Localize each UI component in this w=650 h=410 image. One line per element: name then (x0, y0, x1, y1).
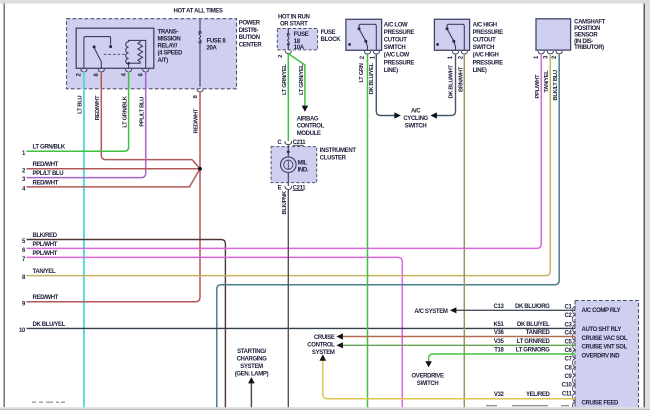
instrument cluster box (271, 147, 317, 183)
page bottom gray strip (0, 407, 650, 410)
svg-text:STARTING/: STARTING/ (237, 349, 266, 355)
svg-text:SWITCH: SWITCH (473, 45, 495, 51)
MIL indicator lamp U2 (281, 145, 297, 187)
wire 10 DK BLU/YEL horizontal to connector C3 (27, 327, 576, 329)
svg-text:TRIBUTOR): TRIBUTOR) (574, 45, 604, 51)
svg-text:MISSION: MISSION (158, 37, 181, 43)
svg-text:SENSOR: SENSOR (574, 32, 598, 38)
svg-text:TRANS-: TRANS- (158, 29, 179, 35)
svg-text:LINE): LINE) (384, 68, 398, 74)
svg-text:A/C SYSTEM: A/C SYSTEM (414, 309, 448, 315)
svg-text:LT BLU: LT BLU (78, 96, 84, 114)
svg-text:RED/WHT: RED/WHT (33, 180, 59, 186)
svg-text:POSITION: POSITION (574, 26, 600, 32)
svg-text:A/T): A/T) (158, 58, 169, 64)
svg-text:V35: V35 (494, 339, 505, 345)
svg-text:A/C HIGH: A/C HIGH (473, 22, 497, 28)
wire T18 LT GRN/ORG row C6 to overdrive switch (429, 354, 575, 362)
svg-text:PPL/LT BLU: PPL/LT BLU (33, 171, 64, 177)
wire 2 RED/WHT horizontal (27, 168, 201, 170)
svg-text:C3: C3 (565, 323, 573, 329)
svg-text:HOT AT ALL TIMES: HOT AT ALL TIMES (173, 9, 222, 15)
svg-text:K51: K51 (494, 322, 505, 328)
svg-text:CRUISE: CRUISE (314, 335, 335, 341)
svg-text:C4: C4 (565, 331, 573, 337)
svg-text:C13: C13 (494, 304, 505, 310)
svg-text:CRUISE VNT SOL: CRUISE VNT SOL (582, 345, 628, 351)
svg-text:TAN/YEL: TAN/YEL (544, 70, 550, 93)
svg-text:DK BLU/YEL: DK BLU/YEL (369, 62, 375, 94)
wire BLK/PNK (cluster pin E down) (287, 189, 289, 407)
fuse F18 terminal bump (285, 51, 291, 54)
svg-text:SYSTEM: SYSTEM (240, 364, 263, 370)
wire V36 TAN/RED row C4 to cruise control (343, 336, 575, 338)
wire 7 PPL/WHT horizontal then down (27, 257, 403, 407)
svg-text:PRESSURE: PRESSURE (384, 30, 415, 36)
svg-text:BLOCK: BLOCK (321, 37, 342, 43)
A/C high switch terminal bumps (452, 51, 467, 54)
svg-text:C2: C2 (565, 313, 573, 319)
svg-text:V36: V36 (494, 330, 505, 336)
arrow left to A/C cycling switch (430, 112, 437, 118)
svg-text:LT GRN/BLK: LT GRN/BLK (33, 145, 66, 151)
svg-text:V32: V32 (494, 392, 505, 398)
fuse F8 20A (199, 19, 201, 87)
wire DK BLU/WHT (A/C high pin 1 to cycling switch) (437, 54, 456, 115)
svg-text:C9: C9 (565, 374, 573, 380)
relay internal dashed link (104, 53, 126, 55)
svg-text:(A/C HIGH: (A/C HIGH (473, 53, 499, 59)
A/C low pressure cutout switch box (346, 19, 382, 50)
connector pin bumps C1-C12 (573, 306, 576, 409)
svg-text:E: E (278, 185, 282, 191)
svg-text:OVERDRV IND: OVERDRV IND (582, 353, 621, 359)
connector C211 bottom (pin E) (285, 186, 292, 190)
svg-text:10: 10 (19, 328, 26, 334)
wire 6 PPL/WHT horizontal to camshaft pin 1 (27, 54, 542, 248)
svg-text:FUSE: FUSE (294, 32, 309, 38)
svg-text:A/C: A/C (411, 109, 421, 115)
wire 8 TAN/YEL horizontal to camshaft pin 3 (27, 54, 551, 275)
wire RED/WHT (relay pin 8 to junction) (101, 72, 200, 169)
svg-text:CUTOUT: CUTOUT (473, 38, 496, 44)
svg-text:A/C COMP RLY: A/C COMP RLY (582, 308, 621, 314)
arrow to airbag control module (302, 106, 309, 112)
svg-text:SYSTEM: SYSTEM (312, 350, 335, 356)
relay pin numbers 2 8 4 6 (77, 73, 145, 77)
svg-text:DISTRI-: DISTRI- (239, 28, 259, 34)
fuse block box (277, 29, 317, 50)
svg-text:RELAY/: RELAY/ (158, 44, 178, 50)
wire LT GRN/YEL (fuse 18 to cluster pin C) (287, 54, 289, 141)
wire DK BLU/YEL (A/C low pin 1 to cycling switch) (376, 54, 394, 115)
svg-text:FUSE 8: FUSE 8 (207, 38, 227, 44)
svg-text:PPL/LT BLU: PPL/LT BLU (139, 97, 145, 127)
junction node (198, 167, 202, 171)
wire BRN/WHT (A/C high pin 2 down) (463, 54, 465, 407)
svg-text:INSTRUMENT: INSTRUMENT (320, 148, 357, 154)
camshaft sensor pin numbers 1 3 2 (534, 55, 558, 59)
A/C high pressure cutout switch box (434, 19, 469, 50)
svg-text:10A: 10A (294, 45, 305, 51)
camshaft position sensor box (536, 19, 571, 50)
wire LT GRN/YEL branch to airbag control module (288, 54, 305, 106)
svg-text:SWITCH: SWITCH (384, 45, 406, 51)
A/C high switch pin numbers 1 2 (448, 55, 464, 59)
svg-text:C7: C7 (565, 357, 573, 363)
svg-text:DK BLU/ORG: DK BLU/ORG (515, 304, 550, 310)
page top gray strip (0, 0, 650, 4)
svg-text:CONTROL: CONTROL (307, 342, 335, 348)
svg-text:CONTROL: CONTROL (297, 124, 325, 130)
svg-text:CUTOUT: CUTOUT (384, 38, 407, 44)
svg-text:YEL/RED: YEL/RED (526, 392, 551, 398)
svg-text:RED/WHT: RED/WHT (33, 162, 59, 168)
svg-text:DK BLU/YEL: DK BLU/YEL (517, 322, 550, 328)
svg-text:2: 2 (278, 55, 284, 58)
svg-text:DK BLU/WHT: DK BLU/WHT (449, 64, 455, 98)
wire RED/WHT (fuse 8 down through junction to wire 9) (27, 92, 201, 302)
wire V32 YEL/RED row C11 to cruise control (up arrow) (323, 359, 575, 399)
svg-text:A/C LOW: A/C LOW (384, 22, 408, 28)
power distribution center box (67, 19, 237, 89)
bottom-left faint text remnant (32, 402, 65, 403)
svg-text:PRESSURE: PRESSURE (384, 60, 415, 66)
svg-text:LT GRN/YEL: LT GRN/YEL (299, 64, 305, 95)
svg-text:BLK/RED: BLK/RED (33, 233, 58, 239)
A/C low switch terminal bumps (364, 51, 379, 54)
wire LT GRN (A/C low pin 2 down) (367, 54, 369, 407)
svg-text:(IN DIS-: (IN DIS- (574, 39, 593, 45)
svg-text:RED/WHT: RED/WHT (194, 108, 200, 133)
svg-text:CHARGING: CHARGING (237, 356, 268, 362)
svg-text:4: 4 (121, 73, 127, 77)
svg-text:LT GRN/ORG: LT GRN/ORG (516, 348, 550, 354)
svg-text:POWER: POWER (239, 21, 261, 27)
svg-text:CRUISE FEED: CRUISE FEED (582, 401, 620, 407)
svg-text:LT GRN/YEL: LT GRN/YEL (282, 64, 288, 95)
svg-text:T18: T18 (494, 348, 504, 354)
svg-text:BLK/LT BLU: BLK/LT BLU (553, 70, 559, 100)
svg-text:FUSE: FUSE (321, 30, 336, 36)
relay coil (pins 4/6) (126, 40, 146, 68)
svg-text:(GEN. LAMP): (GEN. LAMP) (235, 371, 269, 377)
svg-text:PPL/WHT: PPL/WHT (33, 251, 58, 257)
svg-text:AUTO SHT RLY: AUTO SHT RLY (582, 327, 622, 333)
svg-text:LT GRN/RED: LT GRN/RED (517, 339, 551, 345)
wire V35 LT GRN/RED row C5 to cruise control (343, 344, 575, 346)
svg-text:TAN/YEL: TAN/YEL (33, 269, 56, 275)
svg-text:BUTION: BUTION (239, 35, 260, 41)
arrow right to A/C cycling switch (394, 112, 401, 118)
relay switch contact (pins 2/8) (84, 37, 111, 69)
svg-text:LT GRN: LT GRN (359, 63, 365, 82)
svg-text:MIL: MIL (298, 160, 308, 166)
svg-text:CENTER: CENTER (239, 43, 263, 49)
svg-text:C6: C6 (565, 348, 573, 354)
svg-text:PRESSURE: PRESSURE (473, 60, 504, 66)
A/C low switch pin numbers 2 1 (360, 55, 376, 59)
svg-text:CLUSTER: CLUSTER (320, 155, 347, 161)
svg-text:MODULE: MODULE (297, 131, 321, 137)
wire to starting/charging system with up arrow (250, 382, 252, 408)
svg-text:CAMSHAFT: CAMSHAFT (574, 20, 606, 26)
relay pin terminals (bumps) (81, 69, 149, 72)
svg-text:RED/WHT: RED/WHT (33, 295, 59, 301)
connector C211 top (pin C) (285, 141, 292, 145)
svg-text:TAN/RED: TAN/RED (526, 330, 551, 336)
wire LT BLU (relay pin 2) (83, 72, 85, 408)
svg-text:C11: C11 (562, 391, 573, 397)
svg-text:RED/WHT: RED/WHT (95, 95, 101, 120)
svg-text:OVERDRIVE: OVERDRIVE (411, 374, 444, 380)
camshaft sensor terminal bumps (538, 51, 562, 54)
wire 4 RED/WHT horizontal with chamfer to junction (27, 169, 201, 187)
fuse F8 terminal bump at PDC edge (197, 89, 203, 92)
svg-text:DK BLU/YEL: DK BLU/YEL (33, 322, 66, 328)
svg-text:SWITCH: SWITCH (417, 381, 439, 387)
svg-text:OR START: OR START (280, 21, 308, 27)
svg-text:BRN/WHT: BRN/WHT (458, 66, 464, 92)
svg-text:C10: C10 (562, 383, 573, 389)
svg-text:HOT IN RUN: HOT IN RUN (278, 15, 310, 21)
svg-text:C8: C8 (565, 365, 573, 371)
partial row C12 remnants (486, 405, 569, 406)
wire PPL/LT BLU (relay pin 6 to wire 3) (27, 72, 146, 178)
wire DK BLU/ORG C13 row C1 to A/C system (456, 309, 575, 311)
relay K1 transmission relay box (76, 28, 154, 68)
page left border (3, 4, 5, 408)
svg-text:C1: C1 (565, 304, 573, 310)
svg-text:PPL/WHT: PPL/WHT (33, 242, 58, 248)
A/C high pressure switch contacts (447, 24, 464, 50)
svg-text:C5: C5 (565, 339, 573, 345)
svg-text:(A/C LOW: (A/C LOW (384, 53, 410, 59)
wire LT GRN/BLK (relay pin 4 to wire 1) (27, 72, 129, 152)
svg-text:LT GRN/BLK: LT GRN/BLK (122, 95, 128, 127)
page right border (643, 0, 645, 410)
A/C low pressure switch contacts (359, 24, 376, 50)
fuse F18 10A (288, 29, 290, 50)
svg-text:(4 SPEED: (4 SPEED (158, 51, 184, 57)
svg-text:LINE): LINE) (473, 68, 487, 74)
svg-text:PPL/WHT: PPL/WHT (535, 74, 541, 98)
svg-text:SWITCH: SWITCH (405, 124, 427, 130)
svg-text:18: 18 (294, 39, 301, 45)
svg-text:BLK/PNK: BLK/PNK (282, 190, 288, 214)
svg-text:IND.: IND. (298, 168, 309, 174)
PCM connector box (575, 301, 639, 410)
wire BLK/LT BLU (camshaft pin 2) (217, 54, 559, 407)
svg-text:PRESSURE: PRESSURE (473, 30, 504, 36)
svg-text:CRUISE VAC SOL: CRUISE VAC SOL (582, 336, 628, 342)
svg-text:CYCLING: CYCLING (403, 116, 428, 122)
svg-text:20A: 20A (207, 45, 218, 51)
wire 5 BLK/RED horizontal then down (27, 240, 226, 408)
svg-text:AIRBAG: AIRBAG (297, 116, 319, 122)
